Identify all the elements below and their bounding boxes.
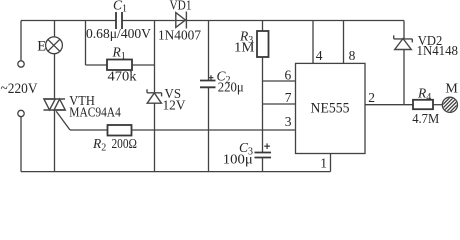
lamp E xyxy=(46,37,63,54)
pin label 3 xyxy=(285,114,292,129)
svg-text:1N4148: 1N4148 xyxy=(417,43,459,58)
svg-text:R1: R1 xyxy=(112,45,126,63)
svg-text:3: 3 xyxy=(285,114,292,129)
label R4 xyxy=(417,85,431,103)
svg-text:E: E xyxy=(37,38,46,54)
svg-text:VD1: VD1 xyxy=(170,0,192,13)
terminal upper xyxy=(18,61,24,67)
label R1 xyxy=(112,45,126,63)
wire pin2 xyxy=(365,104,413,106)
label 1N4148 xyxy=(417,43,459,58)
wire pin8 xyxy=(343,21,345,64)
wire bottom rail xyxy=(21,171,331,173)
svg-text:1: 1 xyxy=(320,156,327,171)
label C1 xyxy=(113,0,127,14)
triac label MAC94A4 xyxy=(69,106,121,121)
pin label 7 xyxy=(285,90,292,105)
wire R3 top lead xyxy=(262,21,264,32)
wire top rail xyxy=(21,20,404,22)
svg-text:4.7M: 4.7M xyxy=(412,112,439,127)
terminal lower xyxy=(18,110,24,116)
wire VD2 to pin2 xyxy=(403,50,405,105)
svg-text:12V: 12V xyxy=(163,98,186,113)
wire pin7 xyxy=(263,103,296,105)
triac VTH xyxy=(44,99,66,110)
label 470k xyxy=(108,70,137,85)
zener VS xyxy=(147,89,162,103)
wire pin1 xyxy=(330,154,332,172)
pin label 6 xyxy=(285,68,292,83)
wire R2 to 555 pin3 xyxy=(132,129,296,131)
wire triac gate diagonal xyxy=(56,111,70,130)
label 1N4007 xyxy=(158,29,201,44)
label 0.68u/400V xyxy=(86,27,151,42)
label 4.7M xyxy=(412,112,439,127)
op-amp U1 NE555 box xyxy=(296,63,366,153)
svg-text:R4: R4 xyxy=(417,85,431,103)
wire C3 to bottom rail xyxy=(262,158,264,172)
svg-text:R2: R2 xyxy=(92,136,106,154)
wire lamp branch top xyxy=(54,21,56,38)
svg-text:2: 2 xyxy=(368,90,375,105)
wire R3 to C3 vertical xyxy=(262,57,264,153)
label plus C2 xyxy=(209,75,214,80)
resistor R1 xyxy=(107,60,132,71)
wire C2 to bottom rail xyxy=(208,87,210,171)
svg-text:0.68μ/400V: 0.68μ/400V xyxy=(86,27,151,42)
pin label 1 xyxy=(320,156,327,171)
wire R4 to motor xyxy=(433,104,442,106)
svg-text:220μ: 220μ xyxy=(218,81,244,96)
pin label 8 xyxy=(349,48,356,63)
diode VD2 xyxy=(394,35,413,49)
wire gate to R2 xyxy=(70,129,108,131)
triac label VTH xyxy=(69,94,95,109)
label 220u xyxy=(218,81,244,96)
label R3 xyxy=(239,29,253,47)
wire VD2 branch upper xyxy=(403,21,405,40)
svg-text:100μ: 100μ xyxy=(223,153,253,168)
svg-text:NE555: NE555 xyxy=(311,100,350,116)
svg-text:4: 4 xyxy=(316,48,323,63)
label 12V xyxy=(163,98,186,113)
wire R1 right lead xyxy=(132,64,155,66)
node ~220V label xyxy=(1,81,38,97)
label plus C3 xyxy=(264,143,270,149)
capacitor C2 plates xyxy=(200,81,216,88)
capacitor C1 plates xyxy=(116,12,122,29)
svg-text:C1: C1 xyxy=(113,0,127,14)
label C3 xyxy=(239,140,253,158)
svg-text:8: 8 xyxy=(349,48,356,63)
pin label 4 xyxy=(316,48,323,63)
wire VS to bottom rail xyxy=(154,103,156,171)
svg-text:470k: 470k xyxy=(108,70,137,85)
wire left rail lower xyxy=(20,117,22,172)
label VS xyxy=(165,87,182,102)
svg-text:M: M xyxy=(445,82,458,97)
label R2 200ohm xyxy=(92,136,137,154)
wire triac to bottom rail xyxy=(54,110,56,172)
wire right branch vertical upper xyxy=(154,21,156,93)
wire R1 branch left vertical xyxy=(85,21,87,66)
svg-text:1N4007: 1N4007 xyxy=(158,29,201,44)
label M xyxy=(445,82,458,97)
resistor R4 xyxy=(413,100,433,109)
svg-text:1M: 1M xyxy=(234,41,255,56)
label 100u xyxy=(223,153,253,168)
label C2 xyxy=(217,69,231,87)
capacitor C3 plates xyxy=(255,153,272,158)
wire R1 left lead xyxy=(86,64,108,66)
svg-text:7: 7 xyxy=(285,90,292,105)
label 1M xyxy=(234,41,255,56)
label VD1 xyxy=(170,0,192,13)
svg-text:~220V: ~220V xyxy=(1,81,38,97)
label NE555 xyxy=(311,100,350,116)
svg-text:6: 6 xyxy=(285,68,292,83)
pin label 2 xyxy=(368,90,375,105)
motor M xyxy=(441,96,460,115)
svg-text:200Ω: 200Ω xyxy=(112,137,138,152)
svg-text:MAC94A4: MAC94A4 xyxy=(69,106,121,121)
lamp label E xyxy=(37,38,46,54)
wire pin6 xyxy=(263,80,296,82)
wire pin4 xyxy=(312,21,314,64)
diode VD1 xyxy=(176,12,187,29)
wire left rail upper xyxy=(20,21,22,61)
resistor R2 xyxy=(108,125,132,136)
label VD2 xyxy=(418,33,443,48)
wire C2 branch upper xyxy=(208,21,210,81)
resistor R3 xyxy=(257,31,269,57)
wire lamp to triac xyxy=(54,54,56,99)
